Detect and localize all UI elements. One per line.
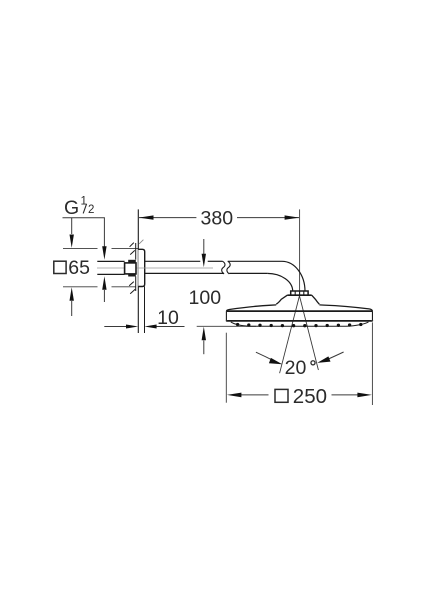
svg-text:65: 65 [68,257,90,279]
svg-text:10: 10 [157,307,179,329]
svg-text:20: 20 [285,357,307,379]
svg-text:2: 2 [88,204,94,216]
svg-text:G: G [64,197,79,219]
svg-text:100: 100 [189,287,222,309]
svg-text:380: 380 [201,208,234,230]
svg-text:250: 250 [293,385,327,408]
